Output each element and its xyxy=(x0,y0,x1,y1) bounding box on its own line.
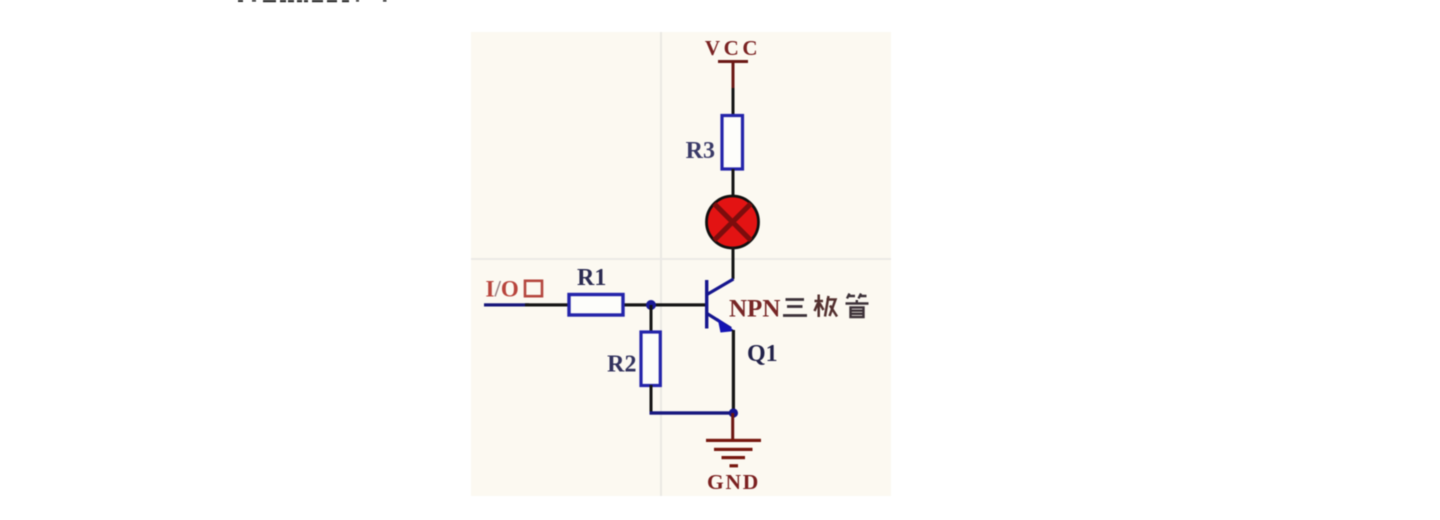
svg-text:NPN: NPN xyxy=(729,296,780,323)
LED lamp D1 (circle with cross) xyxy=(707,196,759,248)
VCC power bar symbol xyxy=(718,60,748,63)
transistor designator Q1 xyxy=(747,341,778,367)
wire LED to collector xyxy=(732,247,735,279)
power net label VCC xyxy=(705,36,761,60)
wire R2 bottom down xyxy=(650,385,653,412)
schematic panel background xyxy=(471,32,891,496)
resistor R2 xyxy=(641,332,660,386)
wire junction down to R2 xyxy=(650,305,653,332)
svg-text:VCC: VCC xyxy=(705,36,761,60)
ground net label GND xyxy=(707,470,760,494)
resistor R3 xyxy=(722,116,743,170)
R3 value label xyxy=(686,138,715,164)
ground symbol bars xyxy=(706,439,761,468)
svg-text:Q1: Q1 xyxy=(747,341,778,367)
VCC stem wire (maroon) xyxy=(732,61,735,88)
cropped text row fragments at top xyxy=(238,0,387,2)
hanzi JI (pole) xyxy=(815,295,838,318)
hanzi SAN (three) xyxy=(783,300,807,316)
hanzi GUAN (tube) xyxy=(846,294,869,318)
bottom wire R2 to ground junction xyxy=(650,411,734,414)
faint horizontal sheet grid line xyxy=(471,258,891,260)
resistor R1 xyxy=(569,295,623,316)
transistor type label NPN xyxy=(729,296,780,323)
transistor Q1 emitter diagonal with arrow xyxy=(707,314,735,333)
svg-text:R2: R2 xyxy=(607,352,636,378)
transistor Q1 collector diagonal xyxy=(707,279,734,295)
svg-text:R3: R3 xyxy=(686,138,715,164)
svg-text:I/O: I/O xyxy=(486,277,519,302)
transistor Q1 base bar xyxy=(705,280,708,329)
hanzi KOU (port) drawn square xyxy=(525,281,542,296)
R1 value label xyxy=(577,265,606,291)
wire R3 to LED xyxy=(732,169,735,198)
net label I/O xyxy=(486,277,519,302)
emitter wire down to ground junction xyxy=(732,330,735,413)
R2 value label xyxy=(607,352,636,378)
base wire from I/O xyxy=(484,303,705,306)
junction node emitter/R2/GND xyxy=(729,408,738,417)
faint vertical sheet grid line xyxy=(660,32,662,496)
svg-text:R1: R1 xyxy=(577,265,606,291)
GND stem wire xyxy=(731,413,734,439)
wire VCC to R3 xyxy=(732,88,735,115)
junction node base/R2 xyxy=(646,300,656,310)
svg-text:GND: GND xyxy=(707,470,760,494)
